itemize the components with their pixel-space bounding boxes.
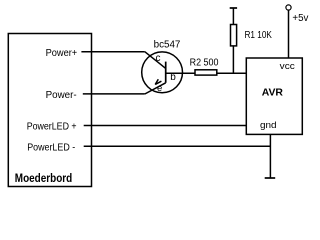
svg-text:Power-: Power-	[46, 90, 77, 101]
svg-text:R2 500: R2 500	[190, 58, 219, 69]
svg-text:PowerLED +: PowerLED +	[27, 122, 77, 133]
transistor Q1 bc547 body circle	[142, 52, 183, 93]
wire +5v to AVR vcc	[288, 10, 290, 58]
wire R2 to AVR pin	[217, 72, 247, 74]
resistor R1 body	[231, 25, 237, 46]
wire PowerLED- to ground wire	[84, 145, 271, 147]
wire R1 to base-wire junction	[232, 46, 234, 74]
wire Power+ to transistor collector	[81, 51, 144, 53]
transistor Q1 base bar	[165, 62, 167, 83]
svg-text:c: c	[156, 53, 161, 64]
resistor R2 body	[195, 70, 217, 75]
wire PowerLED+ to AVR gnd pin	[84, 125, 247, 127]
transistor Q1 emitter arrow	[155, 79, 161, 84]
svg-text:gnd: gnd	[260, 120, 277, 130]
AVR block U1	[246, 58, 302, 134]
transistor Q1 emitter lead	[145, 83, 166, 94]
ground bar	[265, 177, 276, 179]
svg-text:Power+: Power+	[46, 48, 78, 59]
wire transistor base to R2	[166, 72, 195, 74]
svg-text:R1 10K: R1 10K	[245, 30, 273, 41]
svg-text:bc547: bc547	[154, 40, 181, 51]
svg-text:+5v: +5v	[292, 13, 308, 24]
wire rail to R1	[232, 8, 234, 25]
svg-text:e: e	[157, 83, 162, 94]
motherboard block Moederbord	[8, 34, 91, 187]
power rail bar above R1	[230, 7, 237, 9]
wire Power- to transistor emitter	[83, 93, 145, 95]
svg-text:vcc: vcc	[280, 61, 296, 71]
wire AVR gnd to ground	[269, 134, 271, 178]
svg-text:Moederbord: Moederbord	[15, 173, 72, 185]
transistor Q1 collector lead	[145, 52, 166, 69]
svg-text:PowerLED -: PowerLED -	[27, 143, 75, 154]
+5v supply terminal circle	[286, 5, 291, 10]
svg-text:AVR: AVR	[262, 87, 284, 99]
